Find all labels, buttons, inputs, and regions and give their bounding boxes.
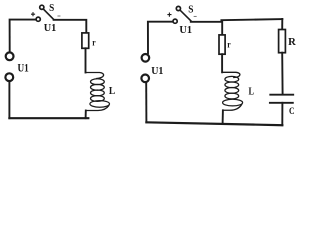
svg-text:R: R <box>288 37 296 48</box>
svg-text:U1: U1 <box>151 65 163 77</box>
wire: bottom wire (right circuit) <box>146 122 282 125</box>
inductor L turn 1 <box>225 76 239 82</box>
inductor L turn 1 <box>91 79 105 85</box>
wire: resistor R to capacitor C <box>281 53 283 94</box>
inductor L turn 2 <box>91 84 105 90</box>
switch S lower terminal <box>36 17 40 21</box>
capacitor C top plate <box>270 94 293 96</box>
inductor L turn 4 <box>91 96 105 102</box>
port terminal U1 upper circle <box>6 52 14 60</box>
svg-text:U1: U1 <box>44 22 57 34</box>
wire: switch to top-right corner, down to resistor r <box>54 20 87 33</box>
wire: junction to top-right corner <box>221 19 282 20</box>
resistor r (right) <box>219 35 225 54</box>
port terminal U1 lower circle <box>5 73 13 81</box>
inductor L (right): top stub and hook <box>222 72 240 77</box>
wire: inductor to bottom wire <box>85 111 87 119</box>
port terminal U1 upper circle <box>142 54 150 62</box>
wire: junction down to resistor r <box>221 21 223 35</box>
wire: inductor to bottom wire <box>222 110 224 124</box>
wire: top-right corner down to resistor R <box>281 19 283 30</box>
wire: lower port to bottom-left corner <box>145 83 147 123</box>
- polarity mark <box>58 15 60 17</box>
svg-text:C: C <box>289 106 295 116</box>
capacitor C bottom plate <box>270 102 293 104</box>
svg-text:L: L <box>249 87 255 98</box>
svg-text:r: r <box>227 41 230 51</box>
inductor L exit loop (5th wide turn) <box>90 101 110 108</box>
inductor L turn 4 <box>225 93 239 99</box>
wire: left vertical top + top wire to switch <box>10 20 36 52</box>
switch S upper terminal <box>176 6 180 10</box>
wire: resistor r to inductor L <box>85 48 87 72</box>
port terminal U1 lower circle <box>141 75 149 83</box>
svg-text:U1: U1 <box>18 62 30 74</box>
+ polarity mark <box>31 12 35 16</box>
svg-text:S: S <box>188 5 194 16</box>
inductor L tail and bottom stub <box>223 105 242 111</box>
wire: left vertical top + top wire to switch <box>148 22 173 54</box>
- polarity mark <box>194 15 196 17</box>
inductor L turn 3 <box>225 88 239 94</box>
inductor L exit loop (5th wide turn) <box>223 99 243 106</box>
wire: resistor r to inductor L <box>221 54 223 72</box>
inductor L (left): top stub and hook <box>86 73 104 79</box>
inductor L tail and bottom stub <box>86 106 109 111</box>
+ polarity mark <box>167 13 171 17</box>
wire: capacitor C to bottom wire <box>281 103 283 125</box>
svg-text:L: L <box>109 86 115 97</box>
switch S lower terminal <box>173 19 177 23</box>
wire: lower port to bottom-left corner <box>8 81 10 118</box>
inductor L turn 3 <box>91 90 105 96</box>
switch S blade <box>44 10 54 20</box>
switch S upper terminal <box>40 5 44 9</box>
resistor r (left) <box>82 33 89 48</box>
svg-text:r: r <box>92 39 95 49</box>
wire: bottom wire (left circuit) <box>9 117 88 119</box>
svg-text:U1: U1 <box>179 24 192 36</box>
switch S blade <box>181 11 191 21</box>
wire: switch to junction <box>191 21 222 23</box>
inductor L turn 2 <box>225 82 239 88</box>
svg-text:S: S <box>49 3 54 14</box>
resistor R <box>279 30 286 53</box>
